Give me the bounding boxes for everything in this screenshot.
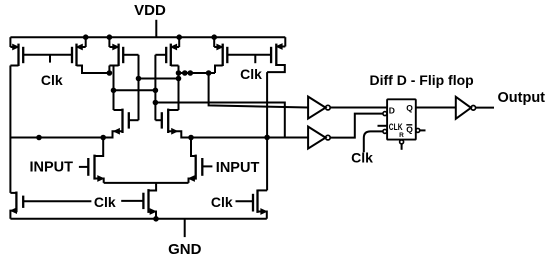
label Clk right-bottom [211,194,233,210]
transistor P4 [166,37,179,66]
transistor N5 tail [121,183,156,219]
pin CLK label [389,122,403,132]
svg-text:GND: GND [168,241,202,258]
node crossB-R [153,88,158,93]
label Output [498,90,546,106]
svg-text:Output: Output [498,90,546,106]
wire nodeR line [191,137,308,139]
transistor P5 [214,37,227,73]
node X [107,71,112,76]
svg-text:Clk: Clk [351,150,373,166]
wire P5-P6 gate line [227,55,271,63]
node rail-dot2 [107,35,112,40]
wire crossB [114,89,156,91]
ground GND label [168,241,202,258]
transistor P3 [109,37,123,66]
pin R bubble [400,140,404,150]
svg-text:Q: Q [406,125,413,135]
transistor N6 reset-left [10,192,23,219]
wire left-edge [9,66,11,193]
node L-in [101,135,106,140]
inverter A2 bottom [308,127,330,149]
pin Qbar bubble [416,128,426,132]
svg-text:VDD: VDD [134,2,166,19]
wire output [476,107,494,109]
svg-text:D: D [389,105,395,115]
label Clk left-bottom [94,194,116,210]
wire inv2-out [330,114,382,138]
wire nodeL line [10,137,103,139]
inverter A1 top [308,97,330,119]
node crossA-L [136,76,141,81]
power VDD label [134,2,166,19]
label INPUT left [30,160,74,176]
label INPUT right [216,160,260,176]
node rail-dot3 [177,35,182,40]
pin Qbar label [406,125,413,135]
pin Q label [406,103,413,113]
node Y-d3 [206,71,211,76]
pin R label [399,132,404,139]
transistor N2 [155,109,191,138]
wire P1-P2 gate line [23,55,72,63]
svg-text:Clk: Clk [94,194,116,210]
svg-text:Clk: Clk [41,72,63,88]
pin CLK stub [378,125,388,127]
node Y-d1 [183,71,188,76]
label Clk right-top [240,66,262,82]
node crossA-R [176,76,181,81]
node Y-d2 [188,71,193,76]
wire crossA [139,78,179,80]
transistor N3 input-left [79,138,104,183]
wire P4 drain riser [178,66,180,111]
wire P3 drain risers [109,66,113,111]
svg-text:INPUT: INPUT [30,160,74,176]
wire Clk curved [364,131,383,152]
transistor P6 [267,37,285,72]
wire VDD rail [10,36,285,38]
svg-text:CLK: CLK [389,122,403,132]
node R-in [189,135,194,140]
node rail-dot4 [212,35,217,40]
node X2 [111,88,116,93]
wire P4 gate [155,55,166,120]
pin Dbar bubble [383,112,387,116]
pin CLKbar bubble [383,129,387,133]
wire GND rail [10,218,266,220]
node L-stray [37,135,42,140]
label Clk left-top [41,72,63,88]
label Clk ff [351,150,373,166]
wire right-edge [266,72,268,190]
wire tailgate line [23,200,91,202]
wire P3 gate [123,55,138,120]
node out-right [265,135,270,140]
svg-text:INPUT: INPUT [216,160,260,176]
svg-text:R: R [399,132,404,139]
pin D label [389,105,395,115]
node GND tap [184,219,186,237]
inverter A3 output [456,97,476,119]
wire inv1-out [330,107,387,109]
svg-text:Clk: Clk [240,66,262,82]
transistor N7 reset-right [236,190,268,219]
transistor P2 [72,37,109,73]
label Diff D - Flip flop [370,72,474,88]
wire tail line [104,182,189,184]
wire Y-to-inv1 [209,73,309,108]
svg-text:Diff D - Flip flop: Diff D - Flip flop [370,72,474,88]
svg-text:Q: Q [406,103,413,113]
wire gates-to-inv2 [155,103,284,138]
transistor N1 [103,109,138,138]
wire nodeY line [179,72,216,74]
svg-text:Clk: Clk [211,194,233,210]
wire Q-out [416,107,456,109]
node tail-gnd [154,217,159,222]
transistor P1 [10,37,23,66]
node VDD tap [155,20,157,37]
node rail-dot1 [83,35,88,40]
transistor N4 input-right [189,138,213,183]
flip-flop U1 box [387,99,416,139]
node Y [176,71,181,76]
node gates-tap [153,100,158,105]
